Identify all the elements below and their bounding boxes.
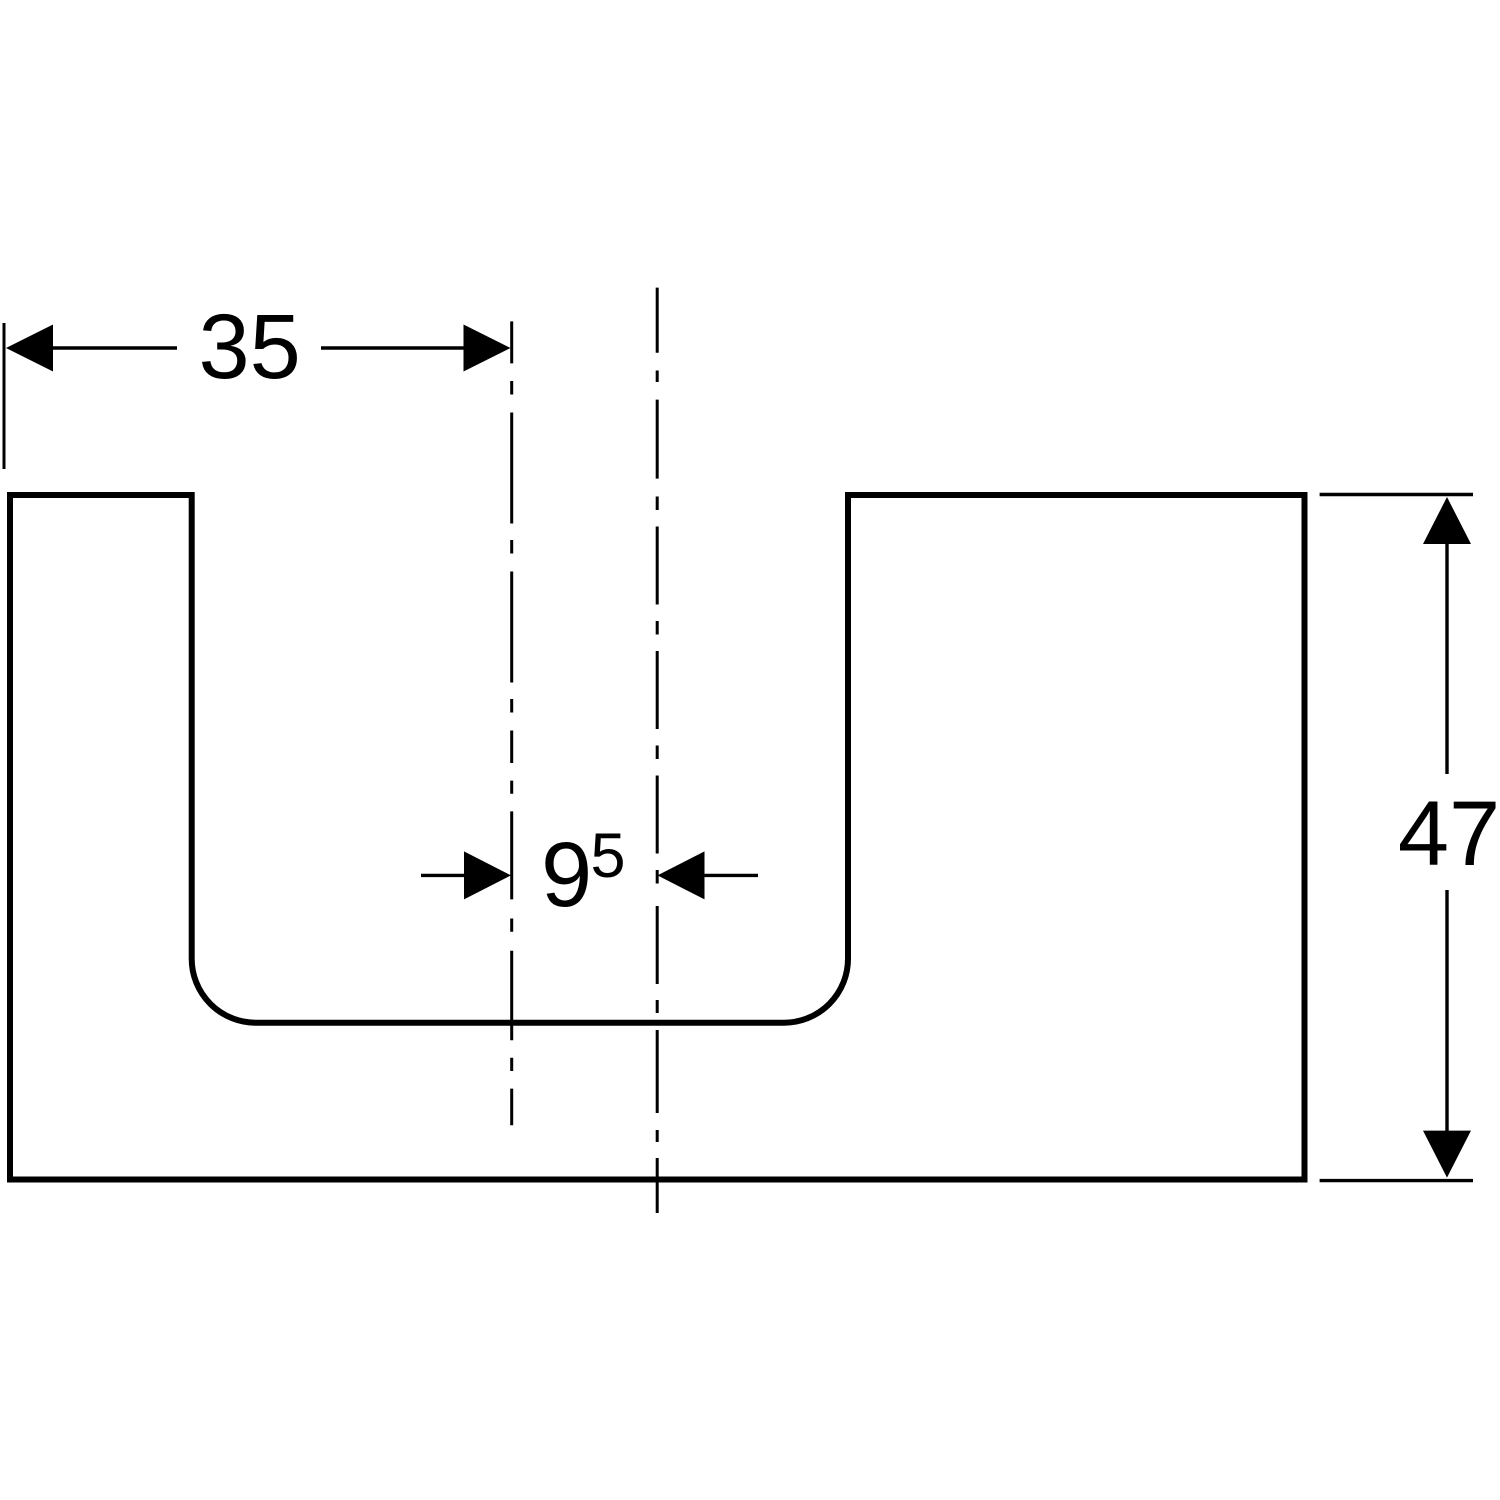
dimension 95: right tail line [703, 874, 758, 877]
dimension 35: dimension line left segment [40, 346, 177, 349]
dimension 47: extension line bottom [1320, 1179, 1473, 1182]
dimension 47: dimension line lower segment [1445, 890, 1448, 1134]
dimension 95: right arrowhead [658, 851, 705, 899]
svg-text:47: 47 [1398, 783, 1500, 885]
dimension 35: extension line left [3, 323, 6, 469]
svg-text:9: 9 [541, 824, 592, 926]
dimension 47: up arrowhead [1423, 497, 1471, 544]
dimension 35: right arrowhead [464, 325, 511, 372]
dimension 47: dimension line upper segment [1445, 540, 1448, 774]
svg-text:35: 35 [199, 296, 301, 398]
dimension 47: extension line top [1320, 493, 1473, 497]
dimension 47: down arrowhead [1423, 1131, 1471, 1178]
panel outline with U-shaped cutout [10, 495, 1305, 1180]
dimension 35: left arrowhead [6, 325, 53, 372]
centerline CL2 (right dash-dot) [656, 288, 659, 1213]
dimension 35: dimension line right segment [321, 346, 500, 349]
dimension 95: left tail line [421, 874, 466, 877]
dimension 95: left arrowhead [464, 851, 511, 899]
centerline CL1 (left dash-dot) [510, 321, 513, 1125]
svg-text:5: 5 [591, 821, 626, 891]
